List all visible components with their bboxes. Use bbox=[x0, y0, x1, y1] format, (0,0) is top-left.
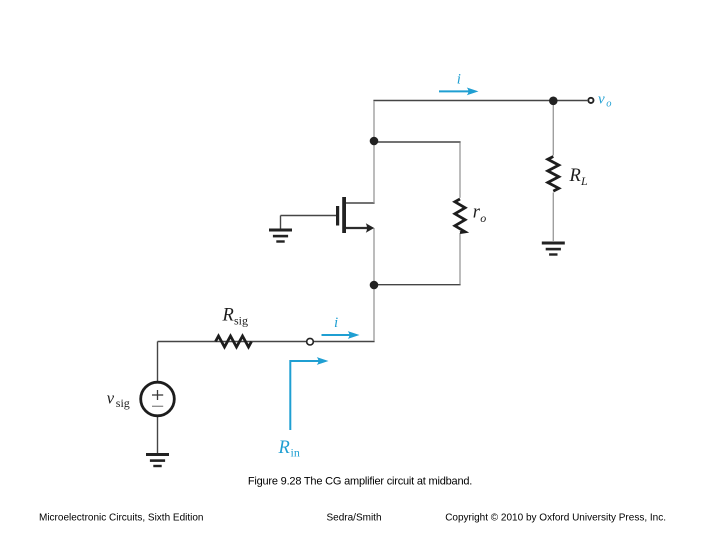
svg-text:v: v bbox=[107, 388, 115, 407]
svg-text:Figure 9.28 The CG amplifier c: Figure 9.28 The CG amplifier circuit at … bbox=[248, 476, 472, 488]
svg-text:R: R bbox=[222, 305, 234, 325]
svg-text:o: o bbox=[606, 99, 611, 110]
svg-text:o: o bbox=[480, 211, 486, 225]
svg-text:in: in bbox=[291, 446, 300, 460]
svg-text:i: i bbox=[334, 315, 338, 331]
svg-text:sig: sig bbox=[234, 314, 248, 328]
svg-text:sig: sig bbox=[116, 396, 130, 410]
svg-text:R: R bbox=[278, 438, 290, 458]
svg-text:Copyright © 2010 by Oxford Uni: Copyright © 2010 by Oxford University Pr… bbox=[445, 513, 666, 524]
svg-text:Sedra/Smith: Sedra/Smith bbox=[326, 513, 381, 524]
svg-text:L: L bbox=[580, 174, 588, 188]
svg-text:Microelectronic Circuits, Sixt: Microelectronic Circuits, Sixth Edition bbox=[39, 513, 204, 524]
svg-text:v: v bbox=[598, 91, 605, 107]
svg-text:i: i bbox=[457, 72, 461, 88]
svg-text:R: R bbox=[569, 166, 581, 186]
